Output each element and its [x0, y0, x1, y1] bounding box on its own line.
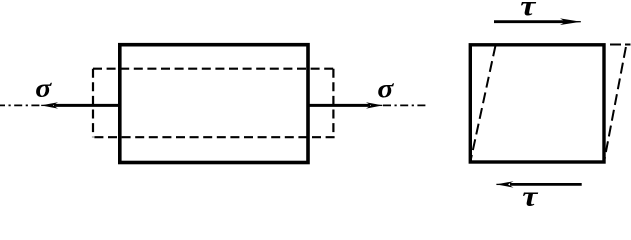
dashed deformed outline of bar: right edge — [332, 69, 334, 138]
label sigma left — [35, 74, 52, 103]
arrow sigma right head — [366, 102, 383, 108]
centerline (dash-dot) left of bar — [0, 104, 42, 106]
svg-text:σ: σ — [377, 74, 394, 103]
bar (solid rectangle) — [120, 45, 308, 163]
label tau bottom — [522, 180, 538, 212]
svg-text:τ: τ — [520, 0, 536, 22]
dashed deformed outline of bar: bottom edge — [93, 136, 335, 138]
arrow sigma right shaft — [308, 104, 370, 107]
arrow tau top head — [560, 18, 581, 25]
arrow tau top shaft — [494, 20, 566, 23]
svg-text:σ: σ — [35, 74, 52, 103]
arrow sigma left head — [41, 102, 58, 108]
label sigma right — [377, 74, 394, 103]
label tau top — [520, 0, 536, 22]
arrow tau bottom head — [496, 181, 513, 187]
dashed sheared top segment — [610, 44, 631, 46]
dashed sheared side right — [604, 47, 626, 162]
dashed deformed outline of bar: top edge — [93, 68, 333, 70]
dashed deformed outline of bar: left edge — [92, 69, 94, 138]
centerline (dash-dot) right of bar — [383, 104, 427, 106]
svg-text:τ: τ — [522, 180, 538, 212]
arrow sigma left shaft — [54, 104, 120, 107]
arrow tau bottom shaft — [510, 183, 582, 186]
dashed sheared side left — [470, 46, 495, 163]
shear element (solid square) — [470, 45, 604, 162]
